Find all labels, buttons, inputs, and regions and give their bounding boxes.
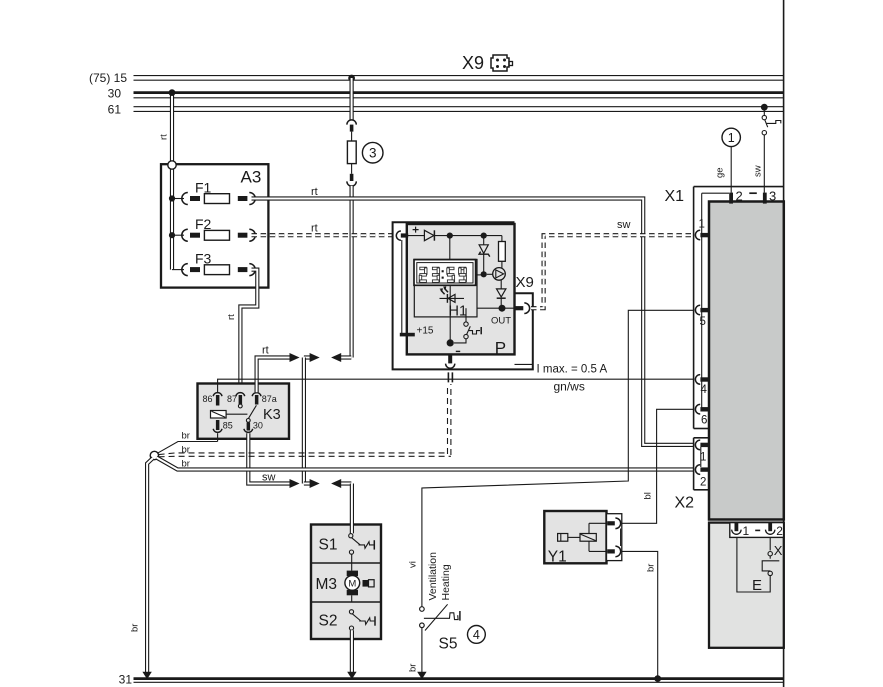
- wire sw dashed from P X9 to X1 pin 1: [531, 219, 694, 308]
- svg-text:M3: M3: [316, 576, 338, 593]
- svg-text:sw: sw: [753, 165, 764, 177]
- svg-text:87: 87: [227, 394, 237, 404]
- bus 15 (terminal 15): [89, 71, 784, 85]
- P node b: [481, 233, 487, 239]
- svg-text:X2: X2: [675, 495, 695, 512]
- P node a: [447, 233, 453, 239]
- P zener diode: [479, 238, 490, 272]
- relay K3: [198, 384, 290, 439]
- wire br dashed from node to timer P ground: [159, 384, 451, 457]
- connector X2 frame: [675, 438, 710, 512]
- svg-text:5: 5: [700, 316, 706, 328]
- svg-text:rt: rt: [311, 186, 318, 198]
- svg-text:rt: rt: [262, 345, 269, 357]
- connector X1 frame: [665, 187, 784, 429]
- wire rt from bus 30 down to A3: [159, 89, 176, 163]
- svg-text:gn/ws: gn/ws: [554, 380, 585, 394]
- wire rt from F1 to X2 pin 1: [252, 186, 695, 445]
- wire br lower from node to X2 pin 2: [157, 458, 695, 470]
- junction on bus 61: [761, 104, 768, 111]
- Y1 connector box: [607, 514, 622, 561]
- K3 switch blade and link: [226, 405, 256, 418]
- svg-text:br: br: [182, 459, 190, 470]
- svg-text:85: 85: [223, 421, 233, 431]
- bus 30 (terminal 30): [108, 87, 784, 101]
- P input contact (+): [396, 227, 418, 241]
- junction on bus 15 for fuse 3: [348, 75, 355, 82]
- svg-text:86: 86: [202, 394, 212, 404]
- X1 top pin 2: [729, 189, 743, 204]
- switch S1: [319, 534, 375, 563]
- svg-text:bl: bl: [643, 492, 654, 499]
- dash between pins 2 and 3: [749, 192, 757, 194]
- X1 pin 1: [695, 218, 709, 240]
- K3 pin 85: [213, 420, 233, 432]
- P node c: [481, 271, 487, 277]
- svg-text:vi: vi: [408, 561, 419, 568]
- svg-text:X9: X9: [516, 274, 534, 291]
- svg-text:3: 3: [769, 189, 776, 204]
- fuse F1: [172, 180, 255, 205]
- svg-text:K3: K3: [263, 407, 281, 423]
- connector X9 label and icon (top): [462, 53, 513, 73]
- svg-text:br: br: [130, 624, 141, 632]
- svg-text:61: 61: [108, 103, 122, 117]
- connector arrow sw a: [290, 479, 300, 488]
- X2 pin 2: [695, 465, 709, 489]
- bottom connector X strip on heat exchanger: [730, 523, 784, 538]
- svg-text:br: br: [646, 564, 657, 572]
- P top rail wire: [408, 235, 502, 237]
- K3 pin 87: [227, 393, 245, 408]
- P minus node: [447, 339, 461, 351]
- wire display down to minus node: [449, 285, 451, 340]
- svg-text:rt: rt: [311, 223, 318, 235]
- svg-text:4: 4: [701, 384, 708, 396]
- K3 pin 86: [202, 393, 222, 406]
- X1 pin 4: [695, 375, 709, 396]
- fuse box A3: [161, 164, 268, 287]
- svg-text:2: 2: [736, 189, 743, 204]
- P series diode: [424, 230, 434, 240]
- heat exchanger unit (light gray box): [709, 523, 784, 648]
- wire sw from thermal switch to pin 3: [753, 135, 765, 193]
- svg-text:OUT: OUT: [491, 316, 511, 327]
- heating element E box: [737, 537, 770, 594]
- wire vi from X1 pin 5 to switch S5: [408, 310, 695, 607]
- K3 pin 30: [244, 419, 263, 433]
- svg-text:P: P: [495, 339, 506, 358]
- svg-text:3: 3: [369, 146, 377, 161]
- svg-text:H1: H1: [449, 303, 468, 319]
- fuse 3 (inline fuse with holder contacts): [347, 120, 356, 186]
- svg-text:sw: sw: [262, 471, 276, 483]
- heater control unit (dark gray box): [709, 202, 784, 520]
- P ground exit pin: [446, 354, 455, 382]
- svg-text:S2: S2: [319, 613, 338, 630]
- svg-text:br: br: [182, 444, 190, 455]
- K3 coil: [211, 411, 227, 419]
- A3 internal supply bus: [169, 168, 175, 270]
- svg-text:ge: ge: [715, 167, 726, 178]
- svg-text:+15: +15: [417, 326, 434, 337]
- wire display to node c: [476, 274, 481, 276]
- svg-text:1: 1: [728, 131, 735, 145]
- svg-text:I max. = 0.5 A: I max. = 0.5 A: [537, 364, 608, 376]
- svg-text:4: 4: [473, 628, 480, 642]
- X1 top pin 3: [763, 189, 776, 204]
- connector arrow rt b: [304, 353, 320, 362]
- LED H1: [440, 286, 468, 319]
- P display unit box: [414, 259, 477, 317]
- bridge wire between arrow rows: [302, 358, 306, 484]
- svg-text:E: E: [752, 577, 762, 594]
- thermal switch (on sw wire): [762, 110, 781, 135]
- switch S5 (ventilation/heating): [420, 552, 460, 653]
- P X9 output port: [515, 274, 534, 314]
- wire br from node down to bus 31: [130, 458, 154, 679]
- wire from K3 85 down: [217, 433, 219, 441]
- svg-text:(75) 15: (75) 15: [89, 71, 127, 85]
- wire rt from K3 87a to connector arrow: [257, 345, 290, 393]
- wire from S2 to bus 31: [347, 630, 356, 679]
- svg-text:1: 1: [700, 452, 706, 464]
- P internal +15 conduit: [400, 240, 434, 337]
- connector arrow rt c: [331, 353, 351, 362]
- wire display to top rail: [449, 236, 451, 260]
- callout circle 1: [722, 128, 740, 146]
- P output diode: [497, 280, 506, 305]
- wire from fuse 3 down to connector arrows (rt row): [350, 186, 354, 358]
- wire bl from X1 pin 6 to valve Y1: [622, 409, 694, 523]
- wire gn/ws from X1 pin 4 to K3 86: [218, 379, 694, 393]
- X1 pin 5: [695, 305, 709, 328]
- svg-text:2: 2: [700, 477, 706, 489]
- svg-text:Ventilation: Ventilation: [427, 552, 439, 601]
- svg-text:br: br: [408, 664, 419, 672]
- callout circle 3: [362, 142, 383, 163]
- blower unit box S1 M3 S2: [311, 525, 381, 640]
- fuse F2: [172, 216, 255, 241]
- wire rt from F3 down to relay K3 pin 87: [226, 270, 257, 393]
- motor M3: [316, 563, 375, 602]
- X2 pin 1: [695, 440, 709, 463]
- wire rt dashed from F2 to timer P: [252, 223, 393, 236]
- connector arrow rt a: [290, 353, 300, 362]
- X1 pin 6: [695, 404, 709, 426]
- wire from sw arrows down into blower box: [350, 484, 354, 534]
- svg-text:S5: S5: [439, 636, 458, 653]
- svg-text:30: 30: [108, 87, 122, 101]
- P OUT node: [477, 305, 515, 327]
- svg-text:br: br: [182, 431, 190, 442]
- bus 61 (terminal 61): [108, 103, 784, 117]
- fuse F3: [172, 251, 255, 276]
- svg-text:sw: sw: [617, 219, 631, 231]
- frame right border: [783, 0, 785, 687]
- svg-text:rt: rt: [226, 314, 237, 320]
- timer module P outer housing: [393, 222, 533, 369]
- ground node (open circle): [150, 451, 158, 459]
- svg-text:X: X: [774, 543, 783, 558]
- svg-text:A3: A3: [241, 168, 262, 187]
- svg-text:6: 6: [701, 415, 707, 427]
- svg-text:Y1: Y1: [548, 549, 567, 566]
- svg-text:87a: 87a: [262, 394, 277, 404]
- K3 pin 87a: [252, 393, 277, 405]
- callout circle 4: [468, 626, 486, 644]
- bus 31 (ground bus bottom): [119, 673, 784, 687]
- overheat switch X in E box: [762, 543, 783, 576]
- P resistor: [499, 236, 506, 269]
- wire br from Y1 to bus 31: [622, 551, 661, 682]
- svg-text:rt: rt: [159, 134, 170, 140]
- wire br from S5 to bus 31: [408, 628, 427, 680]
- svg-text:30: 30: [253, 421, 263, 431]
- P transistor (circle with arrow): [487, 268, 506, 281]
- svg-text:2: 2: [776, 524, 783, 538]
- solenoid valve Y1: [544, 511, 606, 566]
- svg-text:31: 31: [119, 673, 133, 687]
- P clock display 23:59: [414, 260, 476, 286]
- svg-text:1: 1: [743, 524, 750, 538]
- connector arrow sw c: [331, 479, 351, 488]
- switch S2: [319, 610, 376, 631]
- svg-text:S1: S1: [319, 537, 338, 554]
- wire from bus 15 down to fuse 3: [350, 78, 354, 120]
- timer P inner unit (gray): [407, 224, 515, 354]
- svg-text:1: 1: [699, 218, 705, 230]
- wire ge from callout 1 to pin 2: [715, 147, 732, 193]
- P label: [495, 339, 506, 358]
- P manual switch: [454, 308, 481, 343]
- connector arrow sw b: [304, 479, 320, 488]
- svg-text:X1: X1: [665, 188, 685, 205]
- svg-text:M: M: [348, 578, 356, 589]
- svg-text:Heating: Heating: [440, 564, 452, 600]
- wire br upper from node to K3 85: [158, 431, 218, 454]
- wire sw from K3 30 to connector arrow: [248, 433, 290, 483]
- svg-text:X9: X9: [462, 53, 484, 73]
- label I max: [537, 364, 608, 376]
- node circle at A3 top-left: [168, 161, 176, 169]
- Y1 coil and valve symbol: [558, 523, 608, 551]
